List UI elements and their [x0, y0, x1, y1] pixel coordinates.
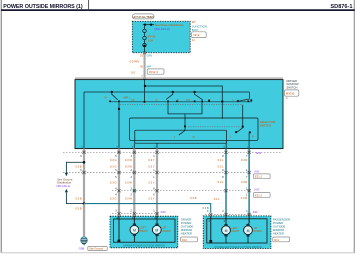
svg-text:0.3 B: 0.3 B: [75, 206, 81, 210]
contact post: [237, 100, 239, 102]
svg-text:M/F: M/F: [147, 64, 152, 68]
svg-text:5: 5: [115, 169, 117, 172]
pin labels above driver box: [115, 210, 155, 213]
node dot: [111, 91, 113, 93]
contact post: [249, 131, 251, 133]
wire into motor1: [133, 216, 135, 225]
svg-text:1: 1: [153, 176, 155, 179]
svg-text:4: 4: [115, 194, 117, 197]
svg-text:14: 14: [192, 38, 195, 42]
svg-text:6: 6: [80, 169, 82, 172]
pin labels below line B: [115, 176, 248, 179]
svg-text:R: R: [193, 135, 195, 139]
svg-text:0.3 G: 0.3 G: [110, 158, 117, 162]
svg-text:3: 3: [131, 176, 133, 179]
svg-text:W/B: W/B: [254, 169, 259, 173]
connector X at fuse box exit: [143, 51, 146, 54]
svg-text:3: 3: [115, 210, 117, 213]
wire down col6: [248, 133, 250, 149]
svg-text:2: 2: [222, 210, 224, 213]
motor terminal nubs driver: [133, 224, 159, 237]
svg-text:0.5: 0.5: [131, 71, 135, 75]
connector tag at line C: [254, 193, 271, 198]
connector line D driver: [112, 213, 159, 215]
pin labels inside driver box: [117, 217, 157, 220]
svg-text:0.3 B: 0.3 B: [75, 165, 81, 169]
wire bus in fuse box: [143, 24, 154, 26]
drop from dot: [221, 102, 223, 119]
linkage dashed row 2: [188, 126, 241, 128]
switch blade 3: [195, 92, 203, 100]
svg-text:5: 5: [115, 176, 117, 179]
svg-text:2: 2: [131, 194, 133, 197]
svg-text:G08: G08: [79, 246, 85, 250]
svg-text:(SD-101-2): (SD-101-2): [155, 27, 170, 31]
svg-text:A: A: [156, 98, 158, 102]
post at dashed row end: [242, 126, 244, 128]
wire grey fuse box to main switch: [144, 53, 146, 80]
switch common rail: [110, 101, 252, 103]
common wire driver: [118, 216, 120, 240]
svg-text:HEATER: HEATER: [273, 232, 284, 236]
contact posts along rail: [109, 100, 249, 102]
node dot col2: [118, 108, 120, 110]
svg-text:30: 30: [140, 64, 143, 68]
connector line D passenger: [205, 214, 252, 216]
svg-text:0.3 W: 0.3 W: [125, 165, 132, 169]
arrow down: [65, 173, 68, 176]
pin labels above passenger box: [207, 210, 248, 213]
ground branch lower: [66, 192, 84, 203]
svg-text:DRIVER POWER OUTSIDE MIRROR: DRIVER POWER OUTSIDE MIRROR: [123, 244, 165, 248]
svg-text:0.3 B: 0.3 B: [75, 196, 81, 200]
svg-text:(SD-101-1): (SD-101-1): [56, 184, 70, 188]
svg-text:E31: E31: [256, 151, 261, 155]
ground branch upper: [66, 162, 84, 173]
wire into motor4: [248, 216, 249, 225]
svg-text:R: R: [252, 135, 254, 139]
svg-text:0.3 Y: 0.3 Y: [148, 158, 154, 162]
svg-text:0.3 W: 0.3 W: [125, 181, 132, 185]
svg-text:0.3 Y: 0.3 Y: [148, 196, 154, 200]
connector tag at line B: [254, 174, 271, 179]
svg-text:RIGHT: RIGHT: [140, 230, 148, 233]
connector line C: [112, 190, 251, 192]
tag driver D10: [181, 237, 198, 242]
node dot: [193, 91, 195, 93]
svg-text:3: 3: [131, 155, 133, 158]
svg-text:W/B: W/B: [254, 188, 259, 192]
svg-text:0.3 W: 0.3 W: [125, 158, 132, 162]
svg-text:7: 7: [246, 176, 248, 179]
node dot: [83, 161, 86, 164]
title cell divider: [88, 0, 90, 10]
connector tag I/P-E 3: [147, 69, 164, 74]
svg-text:POWER OUTSIDE MIRRORS (1): POWER OUTSIDE MIRRORS (1): [3, 4, 83, 10]
svg-text:0.3 L: 0.3 L: [218, 180, 224, 184]
svg-text:SWITCH: SWITCH: [286, 86, 297, 90]
svg-text:D11: D11: [253, 210, 258, 214]
switch blade 1: [112, 92, 118, 100]
svg-text:3: 3: [131, 169, 133, 172]
svg-text:0.3 Y: 0.3 Y: [148, 165, 154, 169]
wire right drop: [248, 92, 250, 99]
contact post: [235, 131, 237, 133]
fuse F4 symbol: [144, 26, 146, 29]
arrow up: [65, 189, 68, 192]
wire into motor2: [156, 216, 158, 225]
svg-text:5: 5: [115, 155, 117, 158]
svg-text:HOT AT ALL TIMES: HOT AT ALL TIMES: [133, 15, 155, 19]
svg-text:D10: D10: [182, 238, 187, 242]
connector tag M33-B: [284, 90, 298, 96]
wire labels row 2: [75, 165, 224, 169]
svg-text:R: R: [243, 98, 245, 102]
svg-text:0.3 R: 0.3 R: [241, 158, 247, 162]
wire labels row 1: [110, 158, 247, 162]
pin labels below line A: [80, 155, 248, 158]
svg-text:M: M: [247, 229, 250, 233]
node dot: [172, 91, 174, 93]
svg-text:B: B: [177, 98, 179, 102]
motor2 bottom stub: [156, 235, 158, 243]
svg-text:10A: 10A: [148, 38, 153, 42]
node dot on selector top: [184, 125, 186, 127]
svg-text:6: 6: [153, 187, 155, 190]
svg-text:1: 1: [286, 97, 288, 100]
svg-text:3: 3: [207, 210, 209, 213]
svg-text:0.3 W: 0.3 W: [125, 196, 132, 200]
connector X marks line A: [82, 151, 250, 154]
passenger mirror box: [203, 216, 271, 249]
selector blade: [179, 130, 185, 135]
svg-text:D11: D11: [274, 238, 279, 242]
svg-text:I/P-E 3: I/P-E 3: [149, 70, 158, 74]
svg-text:RIGHT: RIGHT: [232, 230, 240, 233]
connector X marks line B: [82, 171, 250, 174]
svg-text:0.3 G: 0.3 G: [110, 181, 117, 185]
teal joint mark line C col3: [133, 189, 136, 192]
svg-text:0.3 R: 0.3 R: [241, 180, 247, 184]
shadow above main switch box: [75, 77, 283, 79]
wire down col5: [225, 143, 227, 148]
bus wire 1: [145, 86, 222, 102]
grey wire col1: [83, 149, 85, 238]
svg-text:E31-2: E31-2: [255, 193, 263, 197]
svg-text:4: 4: [115, 187, 117, 190]
driver mirror box: [110, 216, 178, 248]
wire down col2: [118, 102, 120, 149]
connector X marks line D driver: [117, 212, 158, 215]
pin labels below line C: [115, 194, 248, 197]
pin labels inside passenger box: [208, 220, 250, 223]
svg-text:2: 2: [131, 210, 133, 213]
wire labels below line B: [110, 180, 247, 185]
motor M4 passenger UD: [244, 226, 253, 235]
svg-text:1: 1: [153, 210, 155, 213]
svg-text:1: 1: [153, 155, 155, 158]
svg-text:6: 6: [80, 155, 82, 158]
svg-text:1: 1: [246, 194, 248, 197]
linkage dashed row: [120, 104, 242, 106]
title rule: [1, 9, 355, 11]
svg-text:16: 16: [140, 54, 143, 58]
connector line A: [63, 151, 281, 153]
tag passenger D11: [273, 237, 290, 242]
svg-text:8: 8: [222, 169, 224, 172]
svg-text:6: 6: [153, 194, 155, 197]
svg-text:E31-1: E31-1: [255, 175, 263, 179]
svg-text:HEATER: HEATER: [181, 232, 192, 236]
svg-text:MIR L: MIR L: [124, 96, 131, 100]
node dot: [144, 24, 146, 26]
inner contact box: [135, 130, 227, 143]
svg-text:0.3 L: 0.3 L: [214, 197, 220, 201]
motor terminal nubs passenger: [224, 224, 249, 237]
svg-text:SD876-1: SD876-1: [330, 4, 352, 10]
connector X at switch box entry: [143, 78, 146, 81]
svg-text:0.3 L: 0.3 L: [218, 165, 224, 169]
pin labels above line C: [115, 187, 248, 190]
label HOT AT ALL TIMES: [132, 14, 154, 19]
motor M1 driver LR: [130, 225, 139, 234]
selector switch box: [130, 118, 258, 140]
svg-text:0.3 G: 0.3 G: [110, 165, 117, 169]
node dot: [143, 45, 145, 47]
ground net wire to passenger mirror: [84, 204, 211, 213]
svg-text:See Ground: See Ground: [89, 247, 104, 251]
switch blade 4: [239, 99, 249, 101]
svg-text:0.3 G: 0.3 G: [110, 196, 117, 200]
ground tag: [88, 246, 107, 250]
pin labels above line B: [80, 169, 224, 172]
wire down col4: [156, 143, 158, 148]
grey wire col2: [118, 149, 120, 217]
pin labels inside main switch box: [81, 147, 249, 149]
svg-text:D10: D10: [161, 210, 167, 214]
fuse box I/P junction box: [132, 21, 190, 52]
frame bottom border: [1, 252, 355, 254]
selector blade 2: [237, 128, 243, 132]
teal wire col5: [225, 149, 226, 217]
node dot: [83, 202, 86, 205]
center drop wire: [184, 114, 186, 130]
svg-text:M: M: [133, 229, 136, 233]
svg-text:G/W: G/W: [147, 54, 153, 58]
connector tag I/P-E: [192, 32, 207, 38]
motor3 bottom stub: [225, 235, 227, 243]
svg-text:7: 7: [246, 155, 248, 158]
connector X marks line D passenger: [209, 213, 251, 216]
node dot: [150, 24, 152, 26]
svg-text:M: M: [225, 229, 228, 233]
drop to selector: [242, 105, 244, 127]
svg-text:0.3 L: 0.3 L: [218, 158, 224, 162]
svg-text:0.5 PPL: 0.5 PPL: [130, 60, 140, 64]
frame left border: [0, 0, 2, 253]
svg-text:PASSENGER POWER OUTSIDE MIRROR: PASSENGER POWER OUTSIDE MIRROR: [214, 245, 262, 249]
ground symbol G: [81, 237, 88, 244]
motor1 bottom stub: [133, 235, 135, 243]
motor4 bottom stub: [247, 235, 249, 243]
contact post: [144, 101, 146, 103]
teal wire col6: [248, 149, 249, 217]
motor M2 driver UD: [152, 225, 161, 234]
connector X marks line C: [117, 189, 250, 192]
driver mirror inner box: [113, 219, 175, 242]
svg-text:BOX: BOX: [192, 28, 198, 32]
svg-text:8: 8: [222, 155, 224, 158]
switch blade 2: [166, 92, 173, 99]
wire down col3: [133, 143, 135, 148]
grey wire col4: [156, 149, 158, 217]
wire fuse to switch: [144, 46, 146, 53]
wire labels below line C: [75, 196, 247, 200]
svg-text:DOWN: DOWN: [254, 230, 262, 233]
grey wire col3: [133, 149, 135, 217]
wire feed drop inside switch: [144, 80, 146, 102]
svg-text:M: M: [105, 96, 107, 100]
U link wire: [168, 102, 202, 114]
wire left drop to ground pin: [83, 92, 85, 149]
ground wire tail: [84, 204, 86, 238]
svg-text:UP: UP: [131, 98, 135, 102]
contact post: [208, 100, 210, 102]
bus wire 2: [84, 91, 249, 93]
passenger mirror inner box: [207, 219, 267, 243]
svg-text:2: 2: [131, 187, 133, 190]
node dot: [221, 100, 223, 102]
contact post right: [250, 99, 252, 101]
driver power window main switch box: [75, 80, 283, 149]
svg-text:1: 1: [153, 169, 155, 172]
svg-text:DN: DN: [186, 98, 190, 102]
motor M3 passenger LR: [222, 226, 231, 235]
svg-text:M: M: [155, 229, 158, 233]
node dot: [144, 85, 146, 87]
svg-text:1: 1: [246, 210, 248, 213]
svg-text:0.3 Y: 0.3 Y: [148, 181, 154, 185]
svg-text:I/P-E: I/P-E: [193, 33, 199, 37]
svg-text:SWITCH: SWITCH: [260, 124, 271, 128]
svg-text:M33-B: M33-B: [286, 91, 295, 95]
svg-text:0.3 B: 0.3 B: [190, 196, 196, 200]
connector line B: [63, 172, 251, 174]
wire into motor3: [225, 216, 227, 225]
frame right border: [353, 0, 355, 253]
ground wire inside passenger: [210, 216, 212, 240]
svg-text:DOWN: DOWN: [163, 230, 171, 233]
svg-text:8: 8: [222, 176, 224, 179]
